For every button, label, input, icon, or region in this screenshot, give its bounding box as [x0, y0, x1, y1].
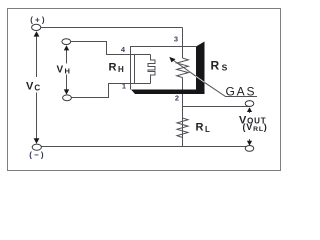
VOUT arrowhead up — [247, 107, 252, 112]
RS arrowhead — [169, 57, 175, 63]
terminal (+) circle — [32, 24, 41, 30]
terminal (-) circle — [32, 144, 41, 150]
svg-text:GAS: GAS — [226, 85, 257, 99]
wire VH top to pin4 — [71, 42, 135, 55]
heater coil — [135, 55, 156, 84]
RS variable arrow line — [172, 60, 196, 77]
gas line streak over band — [196, 76, 205, 82]
terminal VH bottom circle — [63, 95, 72, 101]
wire top rail from (+) to pin3 — [41, 27, 183, 29]
package 3D black band (right+bottom) — [131, 42, 205, 95]
GAS callout line + underline — [205, 82, 258, 96]
svg-text:VH: VH — [57, 64, 72, 75]
wire bottom rail — [41, 146, 249, 148]
VH arrowhead up — [64, 45, 69, 50]
wire VH bottom to pin1 — [71, 84, 134, 98]
wire pin2 vertical — [182, 78, 184, 147]
VC arrowhead up — [34, 31, 40, 36]
svg-text:(+): (+) — [30, 15, 47, 24]
resistor RL zigzag — [177, 118, 188, 138]
wire VOUT measurement arrows line — [249, 108, 251, 113]
wire VOUT branch — [183, 106, 250, 108]
border frame — [8, 9, 281, 171]
wire VH measurement line — [66, 47, 68, 64]
svg-text:1: 1 — [122, 82, 126, 91]
svg-text:(−): (−) — [29, 151, 46, 160]
resistor RS zigzag — [177, 58, 189, 78]
terminal VH top circle — [62, 39, 71, 45]
VC arrowhead down — [34, 138, 40, 143]
wire pin3 vertical — [182, 28, 184, 59]
sensor package outline — [131, 47, 197, 90]
svg-text:3: 3 — [174, 35, 178, 44]
terminal VOUT bottom circle — [245, 146, 254, 152]
VOUT arrowhead down — [247, 141, 252, 146]
terminal VOUT top circle — [245, 101, 254, 107]
wire VC measurement line — [36, 33, 38, 78]
svg-text:2: 2 — [175, 94, 179, 103]
VH arrowhead down — [64, 89, 69, 94]
